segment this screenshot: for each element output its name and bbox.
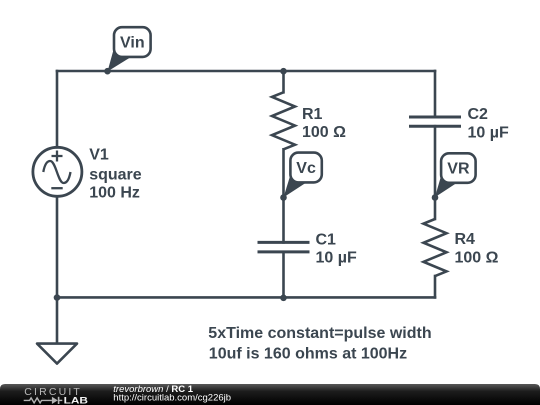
wire left vertical V1 bottom lead (56, 196, 59, 297)
svg-text:100 Ω: 100 Ω (302, 124, 346, 141)
label C1 value (316, 231, 357, 266)
capacitor C2 (409, 117, 461, 126)
node dot VR junction (432, 194, 439, 201)
wire right branch R4 bottom lead (434, 276, 437, 297)
svg-text:100 Ω: 100 Ω (455, 249, 499, 266)
label R1 value (302, 106, 346, 141)
wire bottom horizontal (57, 296, 435, 299)
svg-text:10uf is 160 ohms at 100Hz: 10uf is 160 ohms at 100Hz (209, 345, 407, 362)
resistor R4 (424, 219, 447, 276)
svg-text:R4: R4 (455, 231, 476, 248)
svg-text:V1: V1 (89, 147, 109, 164)
svg-text:LAB: LAB (64, 396, 88, 405)
node dot R1 top junction (280, 68, 287, 75)
svg-text:C2: C2 (468, 106, 489, 123)
svg-text:Vin: Vin (120, 35, 145, 52)
node dot C1 bottom junction (280, 295, 287, 302)
wire middle branch top lead (282, 71, 285, 92)
svg-text:http://circuitlab.com/cg226jb: http://circuitlab.com/cg226jb (113, 393, 231, 404)
ground stem wire (56, 297, 59, 342)
node tag VR (435, 153, 476, 197)
wire right branch top lead (434, 71, 437, 117)
annotation text (208, 325, 431, 362)
node tag Vc (284, 153, 322, 198)
label R4 value (455, 231, 499, 266)
logo diode symbol (52, 397, 58, 404)
node dot Vin junction (104, 68, 111, 75)
svg-text:100 Hz: 100 Hz (89, 185, 140, 202)
node dot ground junction (54, 294, 61, 301)
wire middle branch C1 bottom lead (282, 252, 285, 298)
resistor R1 (272, 92, 295, 149)
node tag Vin (108, 27, 151, 71)
svg-text:Vc: Vc (296, 160, 316, 177)
wire top horizontal (57, 70, 435, 73)
label V1 value (89, 147, 142, 202)
svg-text:10 µF: 10 µF (316, 250, 357, 267)
svg-text:C1: C1 (316, 231, 337, 248)
logo resistor-diode squiggle (24, 398, 52, 403)
wire middle branch R1 to C1 (282, 149, 285, 242)
node dot Vc junction (280, 194, 287, 201)
svg-text:R1: R1 (302, 106, 323, 123)
wire left vertical V1 top lead (56, 71, 59, 147)
voltage source V1 (33, 147, 82, 196)
capacitor C1 (258, 242, 310, 252)
label C2 value (468, 106, 509, 142)
svg-text:10 µF: 10 µF (468, 125, 509, 142)
svg-text:square: square (89, 166, 142, 183)
ground (37, 344, 77, 364)
wire right branch C2 to R4 (434, 126, 437, 219)
svg-text:VR: VR (447, 161, 470, 178)
svg-text:5xTime constant=pulse width: 5xTime constant=pulse width (208, 325, 431, 342)
